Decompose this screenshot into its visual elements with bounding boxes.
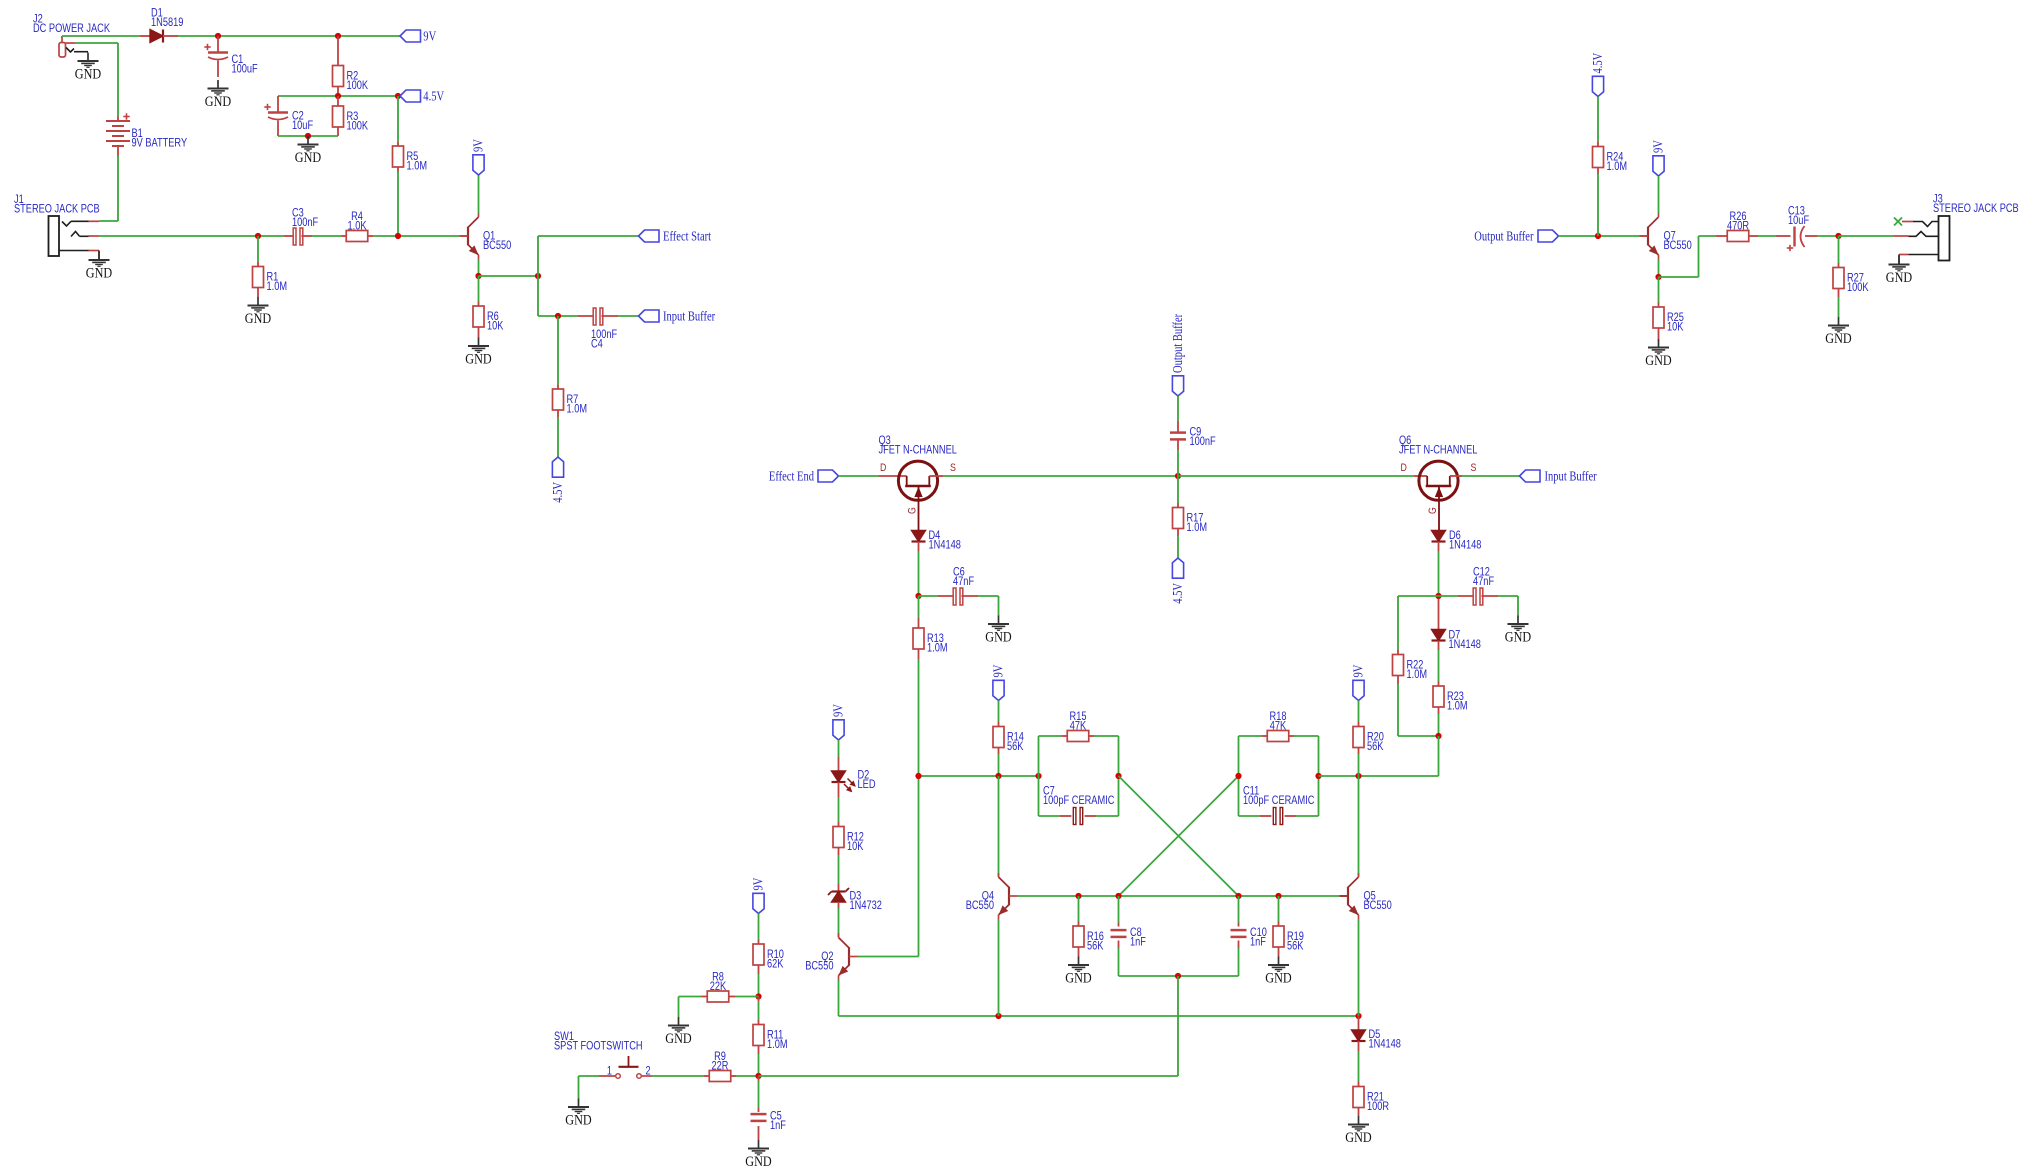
ground GND below C1 xyxy=(217,80,219,89)
capacitor C8 1nF xyxy=(1118,896,1120,923)
svg-text:56K: 56K xyxy=(1007,739,1023,753)
capacitor C3 100nF xyxy=(284,235,295,237)
diode D1 1N5819 xyxy=(140,35,150,37)
node left bus / C7 box left xyxy=(1035,773,1041,779)
resistor R13 1.0M xyxy=(918,596,920,618)
node 9V rail / R2 xyxy=(335,33,341,39)
net port Effect End xyxy=(818,470,839,482)
resistor R26 470R xyxy=(1716,235,1727,237)
resistor R25 10K xyxy=(1658,277,1660,303)
ground GND below R21 xyxy=(1358,1116,1360,1125)
svg-text:JFET N-CHANNEL: JFET N-CHANNEL xyxy=(1399,443,1478,457)
node C9 / R17 / source line xyxy=(1175,473,1181,479)
power flag 9V above R20 xyxy=(1353,680,1364,700)
svg-text:1nF: 1nF xyxy=(1130,935,1146,949)
wire emitter node to Effect Start riser xyxy=(479,275,539,277)
svg-text:GND: GND xyxy=(295,150,321,166)
capacitor C5 1nF xyxy=(758,1076,760,1081)
wire R5 to Q1 base node xyxy=(397,172,399,236)
svg-text:10uF: 10uF xyxy=(1788,213,1809,227)
node R24 / Q7 base xyxy=(1595,233,1601,239)
resistor R8 22K xyxy=(735,996,759,998)
svg-text:1N5819: 1N5819 xyxy=(151,15,184,29)
svg-text:BC550: BC550 xyxy=(805,959,834,973)
node 4.5V rail / R5 xyxy=(395,93,401,99)
svg-text:1N4148: 1N4148 xyxy=(1369,1037,1402,1051)
resistor R21 100R xyxy=(1358,1082,1360,1087)
svg-text:GND: GND xyxy=(1265,971,1291,987)
node R7 / Input Buffer row xyxy=(555,313,561,319)
node bottom rail / Q5 emitter / D5 xyxy=(1355,1013,1361,1019)
svg-text:1.0M: 1.0M xyxy=(567,402,588,416)
node C2/R3 ground tap xyxy=(305,133,311,139)
svg-text:1.0M: 1.0M xyxy=(267,279,288,293)
svg-text:1.0M: 1.0M xyxy=(1187,520,1208,534)
wire right bus xyxy=(1319,775,1439,777)
svg-text:100K: 100K xyxy=(347,78,369,92)
wire R4 to Q1 base xyxy=(373,235,460,237)
svg-text:1N4148: 1N4148 xyxy=(1449,637,1482,651)
ground GND below R16 xyxy=(1078,957,1080,966)
node input / R1 xyxy=(255,233,261,239)
wire Q4 base to R16/C8 row xyxy=(1018,895,1045,897)
resistor R7 1.0M xyxy=(557,316,559,385)
wire battery minus to J1 ring xyxy=(117,156,119,221)
svg-text:Effect End: Effect End xyxy=(769,468,814,483)
svg-text:9V: 9V xyxy=(751,877,766,890)
capacitor C7 100pF CERAMIC (box bottom) xyxy=(1038,776,1040,816)
power flag 9V above D2 xyxy=(833,720,844,740)
ground GND right of C12 xyxy=(1517,616,1519,625)
ground GND below R27 xyxy=(1838,317,1840,326)
wire source line to Q6 drain xyxy=(1178,475,1414,477)
svg-text:100R: 100R xyxy=(1367,1099,1389,1113)
resistor R9 22R xyxy=(704,1075,709,1077)
svg-text:S: S xyxy=(950,462,956,474)
svg-text:1N4148: 1N4148 xyxy=(929,538,962,552)
svg-text:9V BATTERY: 9V BATTERY xyxy=(132,136,188,150)
svg-text:47K: 47K xyxy=(1070,719,1086,733)
net port Output Buffer (above C9, rotated) xyxy=(1172,376,1183,396)
wire 4.5V rail xyxy=(278,95,400,97)
svg-text:STEREO JACK PCB: STEREO JACK PCB xyxy=(1933,201,2019,215)
wire C8-C10 bottom link xyxy=(1119,975,1239,977)
node left bus / R14 / Q4 collector xyxy=(995,773,1001,779)
svg-text:GND: GND xyxy=(1886,270,1912,286)
svg-text:56K: 56K xyxy=(1087,939,1103,953)
LED D2 xyxy=(838,740,840,757)
svg-text:1N4732: 1N4732 xyxy=(850,898,883,912)
node D4 / C6 / R13 xyxy=(915,593,921,599)
svg-text:GND: GND xyxy=(465,352,491,368)
node right bus / R20 / Q5 collector xyxy=(1355,773,1361,779)
svg-text:10K: 10K xyxy=(487,319,503,333)
resistor R16 56K xyxy=(1078,896,1080,922)
svg-text:G: G xyxy=(907,507,919,514)
node C7 box right / cross wire xyxy=(1115,773,1121,779)
svg-text:GND: GND xyxy=(745,1154,771,1170)
resistor R5 1.0M xyxy=(397,96,399,142)
node Q7 emitter / R25 xyxy=(1655,274,1661,280)
resistor R27 100K xyxy=(1838,236,1840,263)
wire C2/R3 bottom to ground tap xyxy=(278,135,338,137)
wire Q1 emitter node xyxy=(478,259,480,276)
resistor R14 56K xyxy=(998,701,1000,723)
svg-text:GND: GND xyxy=(1645,353,1671,369)
svg-text:GND: GND xyxy=(205,94,231,110)
net port Output Buffer (right top) xyxy=(1538,230,1559,242)
svg-text:1.0M: 1.0M xyxy=(1447,699,1468,713)
svg-text:10K: 10K xyxy=(847,839,863,853)
wire 9V rail from D1 to 9V flag xyxy=(178,35,400,37)
capacitor C13 10uF (polarized) xyxy=(1776,235,1791,237)
svg-text:STEREO JACK PCB: STEREO JACK PCB xyxy=(14,202,100,216)
resistor R3 100K xyxy=(337,96,339,106)
node 9V rail / C1 xyxy=(215,33,221,39)
node R22 / R23 join xyxy=(1435,733,1441,739)
wire SW1 pin1 to ground xyxy=(599,1075,615,1077)
node gate row / C8 / cross wire xyxy=(1115,893,1121,899)
svg-text:LED: LED xyxy=(858,777,876,791)
svg-text:GND: GND xyxy=(1345,1130,1371,1146)
svg-text:100nF: 100nF xyxy=(292,215,318,229)
svg-text:D: D xyxy=(1401,462,1407,474)
node C13 / R27 / J3 xyxy=(1835,233,1841,239)
svg-text:C4: C4 xyxy=(591,337,603,351)
svg-text:10K: 10K xyxy=(1667,320,1683,334)
wire R13 to left bus xyxy=(918,659,920,776)
svg-text:100nF: 100nF xyxy=(1190,434,1216,448)
svg-text:GND: GND xyxy=(1065,971,1091,987)
svg-text:62K: 62K xyxy=(767,957,783,971)
svg-text:4.5V: 4.5V xyxy=(423,88,444,103)
power flag 9V above R10 xyxy=(753,893,764,913)
svg-text:GND: GND xyxy=(1505,630,1531,646)
svg-text:4.5V: 4.5V xyxy=(1170,583,1185,604)
node left bus / R13 / Q2 base xyxy=(915,773,921,779)
wire gate feed to flip-flop xyxy=(759,1075,1179,1077)
svg-text:1N4148: 1N4148 xyxy=(1449,538,1482,552)
capacitor C11 100pF CERAMIC (box bottom) xyxy=(1238,776,1240,816)
transistor Q1 BC550 xyxy=(460,235,469,237)
resistor R20 56K xyxy=(1358,701,1360,723)
resistor R12 10K xyxy=(838,822,840,827)
node R10 / R8 / R11 xyxy=(755,993,761,999)
wire R22-R23 node down to right bus corner xyxy=(1438,736,1440,776)
svg-text:1.0M: 1.0M xyxy=(1607,159,1628,173)
ground GND right of C6 xyxy=(998,616,1000,625)
power flag 4.5V (divider) xyxy=(400,90,421,102)
resistor R23 1.0M xyxy=(1438,650,1440,682)
battery B1 9V BATTERY xyxy=(117,43,119,117)
wire input signal J1 tip to C3 xyxy=(99,235,284,237)
ground GND below SW1 xyxy=(578,1099,580,1108)
power flag 9V above Q1 xyxy=(473,155,484,175)
wire SW1 pin2 to R9 xyxy=(642,1075,652,1077)
svg-text:4.5V: 4.5V xyxy=(550,482,565,503)
capacitor C2 10uF xyxy=(277,96,279,113)
ground GND at J2 sleeve xyxy=(87,53,89,62)
svg-text:BC550: BC550 xyxy=(1664,238,1693,252)
svg-text:Output Buffer: Output Buffer xyxy=(1474,228,1534,243)
wire R7 to 4.5V flag xyxy=(557,417,559,457)
svg-text:9V: 9V xyxy=(1651,140,1666,153)
svg-text:DC POWER JACK: DC POWER JACK xyxy=(33,21,110,35)
svg-text:56K: 56K xyxy=(1287,939,1303,953)
wire riser to Effect Start flag xyxy=(537,236,539,276)
svg-text:1.0K: 1.0K xyxy=(348,219,367,233)
resistor R4 1.0K xyxy=(341,235,346,237)
zener diode D3 1N4732 xyxy=(838,884,840,892)
wire R26 to C13 xyxy=(1758,235,1776,237)
node riser / Input Buffer branch xyxy=(535,273,541,279)
wire Q2 emitter to bottom rail xyxy=(838,980,840,1017)
svg-text:Output Buffer: Output Buffer xyxy=(1170,313,1185,373)
svg-text:G: G xyxy=(1427,507,1439,514)
svg-text:100uF: 100uF xyxy=(232,62,258,76)
svg-text:10uF: 10uF xyxy=(292,118,313,132)
node Q1 emitter / R6 xyxy=(475,273,481,279)
resistor R1 1.0M xyxy=(257,236,259,262)
svg-text:1.0M: 1.0M xyxy=(927,641,948,655)
power flag 9V above R14 xyxy=(993,680,1004,700)
svg-text:47nF: 47nF xyxy=(953,574,974,588)
svg-text:100pF CERAMIC: 100pF CERAMIC xyxy=(1243,793,1315,807)
wire C4 to Input Buffer flag xyxy=(618,315,639,317)
ground GND below R25 xyxy=(1658,339,1660,348)
svg-text:BC550: BC550 xyxy=(966,898,995,912)
resistor R15 47K (C7 box top) xyxy=(1038,736,1040,776)
net port Input Buffer (left) xyxy=(639,310,660,322)
transistor Q2 BC550 (mirrored) xyxy=(848,947,850,966)
ground GND at J3 sleeve xyxy=(1898,256,1900,265)
diode D5 1N4148 xyxy=(1358,1016,1360,1030)
wire J2 pin1 to D1 anode (9V rail start) xyxy=(62,35,140,37)
power flag 4.5V below R7 xyxy=(552,457,563,477)
power flag 4.5V above R24 xyxy=(1592,76,1603,96)
resistor R19 56K xyxy=(1278,896,1280,922)
wire C13 to J3 tip xyxy=(1817,235,1839,237)
svg-text:9V: 9V xyxy=(1351,664,1366,677)
svg-text:100K: 100K xyxy=(347,119,369,133)
wire bottom rail xyxy=(839,1015,1359,1017)
svg-text:GND: GND xyxy=(86,266,112,282)
svg-text:470R: 470R xyxy=(1727,219,1749,233)
wire Output Buffer flag to R24/Q7 xyxy=(1559,235,1640,237)
transistor Q6 JFET N-CHANNEL xyxy=(1419,461,1458,500)
svg-text:56K: 56K xyxy=(1367,739,1383,753)
resistor R24 1.0M xyxy=(1597,97,1599,143)
wire Q7 emitter node xyxy=(1658,259,1660,277)
capacitor C10 1nF xyxy=(1238,896,1240,923)
transistor Q3 JFET N-CHANNEL xyxy=(898,461,937,500)
ground GND below R6 xyxy=(478,338,480,347)
node gate row / C10 / cross wire xyxy=(1235,893,1241,899)
transistor Q4 BC550 (mirrored) xyxy=(998,776,1000,873)
wire J3 tip pin xyxy=(1839,235,1894,237)
wire Q7 emitter to R26 xyxy=(1659,276,1699,278)
wire riser down to Input Buffer row xyxy=(537,276,539,316)
svg-text:SPST FOOTSWITCH: SPST FOOTSWITCH xyxy=(554,1039,643,1053)
svg-text:47K: 47K xyxy=(1270,719,1286,733)
svg-text:1nF: 1nF xyxy=(770,1118,786,1132)
diode D4 1N4148 (Q3 gate) xyxy=(912,531,926,542)
resistor R17 1.0M xyxy=(1177,476,1179,503)
wire Effect End to Q3 drain xyxy=(839,475,879,477)
svg-text:100pF CERAMIC: 100pF CERAMIC xyxy=(1043,793,1115,807)
svg-text:22R: 22R xyxy=(712,1059,729,1073)
wire C3 to R4 xyxy=(312,235,341,237)
wire Q6 source to Input Buffer flag xyxy=(1450,475,1462,477)
node D6 / C12 / R22 / D7 xyxy=(1435,593,1441,599)
svg-text:1.0M: 1.0M xyxy=(407,159,428,173)
svg-text:1nF: 1nF xyxy=(1250,935,1266,949)
node R9 / R11 / C5 / gate feed xyxy=(755,1073,761,1079)
capacitor C12 47nF xyxy=(1439,595,1459,597)
node C11 box left / cross wire xyxy=(1235,773,1241,779)
wire Q1 collector to 9V flag xyxy=(478,175,480,213)
cross wire C7-box to Q5 side xyxy=(1119,776,1239,896)
ground GND at J1 sleeve xyxy=(98,252,100,261)
transistor Q5 BC550 xyxy=(1358,776,1360,873)
diode D6 1N4148 (Q6 gate) xyxy=(1432,531,1446,542)
svg-text:S: S xyxy=(1471,462,1477,474)
svg-text:GND: GND xyxy=(565,1113,591,1129)
power flag 9V above Q7 xyxy=(1653,156,1664,176)
svg-text:D: D xyxy=(880,462,886,474)
ground GND below R1 xyxy=(257,297,259,306)
svg-text:GND: GND xyxy=(245,311,271,327)
svg-text:22K: 22K xyxy=(710,979,726,993)
ground GND below R8 xyxy=(678,1017,680,1026)
resistor R18 47K (C11 box top) xyxy=(1238,736,1240,776)
node C11 box right / right bus xyxy=(1315,773,1321,779)
svg-text:100K: 100K xyxy=(1847,280,1869,294)
svg-text:GND: GND xyxy=(985,630,1011,646)
svg-text:GND: GND xyxy=(1825,331,1851,347)
svg-text:BC550: BC550 xyxy=(483,238,512,252)
ground GND below C2/R3 xyxy=(307,136,309,145)
capacitor C4 100nF xyxy=(578,315,595,317)
capacitor C9 100nF xyxy=(1177,396,1179,421)
resistor R22 1.0M xyxy=(1398,595,1439,597)
cross wire C11-box to Q4 side xyxy=(1119,776,1239,896)
svg-text:1.0M: 1.0M xyxy=(1407,667,1428,681)
svg-text:47nF: 47nF xyxy=(1473,574,1494,588)
node 4.5V rail / R3 xyxy=(335,93,341,99)
node gate row / R16 xyxy=(1075,893,1081,899)
svg-text:9V: 9V xyxy=(991,664,1006,677)
power flag 9V (top rail) xyxy=(400,30,421,42)
svg-text:9V: 9V xyxy=(831,704,846,717)
resistor R10 62K xyxy=(758,914,760,940)
svg-text:9V: 9V xyxy=(471,139,486,152)
resistor R11 1.0M xyxy=(758,997,760,1002)
capacitor C6 47nF xyxy=(919,595,939,597)
svg-text:1.0M: 1.0M xyxy=(767,1037,788,1051)
svg-text:Input Buffer: Input Buffer xyxy=(1545,468,1598,483)
node bottom rail / Q4 emitter xyxy=(995,1013,1001,1019)
svg-text:4.5V: 4.5V xyxy=(1590,53,1605,74)
diode D7 1N4148 xyxy=(1438,599,1440,630)
capacitor C1 100uF xyxy=(217,36,219,53)
svg-text:JFET N-CHANNEL: JFET N-CHANNEL xyxy=(879,443,958,457)
ground GND below C5 xyxy=(758,1140,760,1149)
svg-text:Input Buffer: Input Buffer xyxy=(663,308,716,323)
resistor R6 10K xyxy=(478,276,480,302)
net port Effect Start xyxy=(639,230,660,242)
ground GND below R19 xyxy=(1278,957,1280,966)
svg-text:BC550: BC550 xyxy=(1364,898,1393,912)
svg-text:Effect Start: Effect Start xyxy=(663,228,711,243)
node bottom link / R9 riser xyxy=(1175,973,1181,979)
transistor Q7 BC550 xyxy=(1640,235,1649,237)
wire left bus xyxy=(919,775,1039,777)
svg-text:GND: GND xyxy=(665,1031,691,1047)
node R5 / R4 / Q1 base xyxy=(395,233,401,239)
svg-text:9V: 9V xyxy=(423,28,436,43)
power flag 4.5V below R17 xyxy=(1172,558,1183,578)
net port Input Buffer (right) xyxy=(1520,470,1541,482)
svg-text:GND: GND xyxy=(75,67,101,83)
node gate row / R19 xyxy=(1275,893,1281,899)
wire Q3 source to C9 node xyxy=(929,475,943,477)
wire Q2 base to left bus riser xyxy=(858,956,919,958)
resistor R2 100K xyxy=(337,36,339,66)
